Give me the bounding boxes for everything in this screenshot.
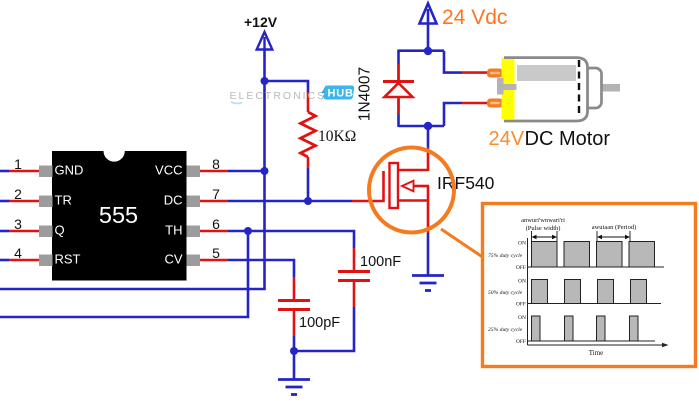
svg-text:25% duty cycle: 25% duty cycle (488, 327, 523, 333)
wire: 100nF bottom to ground node (294, 307, 354, 351)
wire: 100pF bottom to ground (293, 336, 296, 379)
svg-text:2: 2 (14, 186, 22, 202)
node: +12V rail / resistor branch junction (261, 77, 269, 85)
svg-text:1N4007: 1N4007 (357, 67, 374, 121)
node: TH junction (244, 227, 252, 235)
svg-text:ON: ON (518, 279, 526, 285)
svg-text:RST: RST (55, 252, 81, 267)
watermark: ELECTRONICS HUB (230, 84, 355, 103)
svg-text:Q: Q (55, 223, 65, 238)
ground: bottom-centre (278, 380, 310, 395)
555 IC U1 (39, 151, 200, 281)
svg-text:OFF: OFF (516, 265, 526, 271)
wire: pin4 RST lead (0, 259, 40, 262)
pin stubs left (39, 166, 53, 178)
svg-text:5: 5 (212, 245, 220, 261)
svg-text:7: 7 (212, 186, 220, 202)
wire: +12V branch to resistor (265, 81, 309, 92)
node: diode bottom junction (424, 122, 432, 130)
pin stubs right (187, 166, 201, 178)
svg-text:24 Vdc: 24 Vdc (442, 6, 507, 29)
svg-text:50% duty cycle: 50% duty cycle (488, 290, 523, 296)
wire: pin2 TR lead (0, 200, 40, 203)
capacitor C2 100pF (278, 277, 310, 336)
svg-text:TH: TH (165, 223, 182, 238)
svg-text:VCC: VCC (155, 163, 182, 178)
svg-text:IRF540: IRF540 (437, 173, 495, 193)
ground: MOSFET source (412, 276, 444, 291)
measure arrow period (597, 231, 630, 243)
svg-text:+12V: +12V (244, 14, 278, 30)
power symbol +12V arrow (257, 32, 273, 50)
svg-text:TR: TR (55, 193, 72, 208)
wire: diode/motor loop bottom (399, 114, 445, 127)
svg-text:Time: Time (589, 349, 604, 357)
svg-text:(Pulse width): (Pulse width) (526, 225, 561, 232)
node: diode top junction (424, 47, 432, 55)
svg-text:555: 555 (99, 202, 138, 228)
wire: drain from motor loop (427, 126, 430, 171)
wire: resistor bottom to pin7 line (307, 168, 310, 201)
axis (527, 238, 529, 345)
wire: pin3 Q lead (0, 230, 40, 233)
annotation: orange circle around MOSFET (369, 148, 454, 233)
time axis (528, 343, 669, 357)
transistor Q1 IRF540 MOSFET (384, 163, 430, 233)
measure arrow pulse width (532, 231, 558, 243)
wire: pin8 VCC to +12V rail (199, 170, 265, 173)
svg-text:4: 4 (14, 245, 22, 261)
svg-text:8: 8 (212, 156, 220, 172)
svg-text:ELECTRONICS: ELECTRONICS (230, 90, 327, 102)
wire: pin5 CV to 100pF (199, 260, 294, 277)
svg-text:HUB: HUB (328, 88, 354, 100)
svg-text:ON: ON (518, 241, 526, 247)
svg-text:DC: DC (164, 193, 183, 208)
svg-text:100pF: 100pF (299, 315, 340, 331)
waveform row 75% duty (488, 241, 664, 272)
svg-text:75% duty cycle: 75% duty cycle (488, 253, 523, 259)
svg-text:awuiaan (Period): awuiaan (Period) (592, 224, 637, 231)
svg-text:ON: ON (518, 315, 526, 321)
power symbol 24Vdc arrow (420, 4, 437, 52)
wire: motor bottom terminal branch (444, 103, 490, 126)
wire: pin7 DC to gate (199, 200, 385, 203)
annotation: leader line to waveform inset (441, 229, 484, 258)
wire: motor top terminal branch (444, 51, 490, 73)
svg-text:24V: 24V (489, 128, 525, 150)
svg-text:100nF: 100nF (360, 254, 401, 270)
svg-text:6: 6 (212, 216, 220, 232)
wire: bottom-left horizontal rail 1 (0, 47, 265, 289)
wire: bottom-left horizontal rail 2 (TH return) (0, 231, 248, 317)
wire: pin1 GND lead (0, 170, 40, 173)
label 24V DC Motor (489, 128, 611, 150)
svg-text:anwuri'wnwari'ri: anwuri'wnwari'ri (521, 217, 565, 224)
wire: diode/motor loop top (399, 50, 445, 65)
node: +12V rail / VCC pin junction (261, 167, 269, 175)
svg-text:OFF: OFF (516, 302, 526, 308)
capacitor C1 100nF (338, 248, 370, 307)
waveform row 25% duty (488, 315, 655, 345)
svg-text:GND: GND (55, 163, 84, 178)
svg-text:10KΩ: 10KΩ (318, 128, 356, 145)
annotation: waveform inset box (483, 204, 696, 367)
wire: source to ground (427, 233, 430, 275)
svg-text:OFF: OFF (516, 339, 526, 345)
motor M1 24V DC motor (487, 56, 620, 121)
diode D1 1N4007 (383, 64, 414, 114)
node: resistor/pin7 junction (304, 197, 312, 205)
waveform row 50% duty (488, 279, 661, 308)
svg-text:CV: CV (164, 252, 182, 267)
svg-text:3: 3 (14, 216, 22, 232)
resistor R1 10KΩ (301, 92, 316, 168)
svg-text:DC Motor: DC Motor (525, 128, 611, 150)
svg-text:1: 1 (14, 156, 22, 172)
wire: pin6 TH to 100nF (199, 231, 354, 248)
node: caps ground junction (290, 347, 298, 355)
